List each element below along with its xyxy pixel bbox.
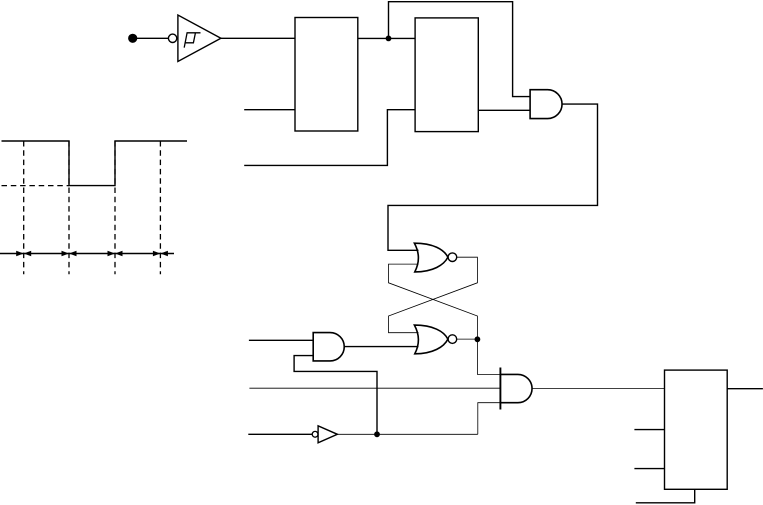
arrowhead left at t1 bbox=[24, 251, 32, 257]
wire U5 input1 stub bbox=[249, 339, 313, 341]
wire U5 output to U4 input bbox=[344, 346, 418, 348]
dashed marker line t4 bbox=[159, 141, 161, 274]
dashed low-level reference line bbox=[2, 185, 70, 187]
block1 bbox=[295, 18, 358, 132]
wire schmitt output to block1 bbox=[221, 37, 295, 39]
gray bus wire to AND U6 middle input bbox=[249, 387, 500, 389]
arrowhead left at t4 bbox=[160, 251, 168, 257]
wire Q down to AND U6 first input (gray) bbox=[477, 339, 500, 374]
dashed marker line t1 bbox=[23, 141, 25, 274]
wire U4 output (gray) bbox=[457, 338, 478, 340]
and gate U2 bbox=[530, 90, 562, 119]
input node dot bbox=[128, 34, 137, 43]
arrowhead right at t4 bbox=[153, 251, 161, 257]
inverter input bubble bbox=[312, 431, 318, 437]
schmitt trigger buffer U1 bbox=[178, 15, 221, 62]
dashed marker line t2 bbox=[68, 141, 70, 274]
wire inverter input bbox=[248, 433, 312, 435]
wire block2 output to AND U2 bbox=[478, 109, 530, 111]
U4 output bubble bbox=[448, 335, 457, 344]
block3 bbox=[665, 370, 728, 489]
wire U2 output down to NOR latch bbox=[388, 104, 598, 250]
and gate U5 bbox=[313, 333, 344, 361]
wire up to AND U6 third input (gray) bbox=[478, 403, 501, 435]
arrowhead right at t1 bbox=[16, 251, 24, 257]
wire block1 to block2 bbox=[358, 37, 415, 39]
wire block3 output bbox=[727, 388, 763, 390]
wire block3 bottom pin bbox=[636, 489, 695, 503]
junction node bbox=[386, 36, 392, 42]
junction node Q bbox=[475, 336, 481, 342]
inverter input bubble bbox=[168, 34, 176, 42]
nor gate U3 (top) bbox=[414, 243, 448, 272]
arrowhead left at t2 bbox=[69, 251, 77, 257]
dimension arrow line bbox=[0, 253, 174, 255]
U6 input bar bbox=[499, 368, 501, 410]
block2 bbox=[415, 18, 478, 132]
block3 input stub 2 bbox=[634, 429, 664, 431]
U3 output bubble bbox=[448, 253, 457, 262]
wire U7 output (gray) bbox=[337, 433, 477, 435]
wire feedback loop over the top to AND U2 bbox=[389, 2, 531, 97]
block3 input stub 3 bbox=[634, 468, 664, 470]
block1 input2 stub bbox=[244, 109, 295, 111]
arrowhead right at t3 bbox=[108, 251, 116, 257]
wire U6 output to block3 (gray) bbox=[532, 387, 664, 389]
arrowhead right at t2 bbox=[62, 251, 70, 257]
wire U4 output cross-coupled to U3 input (gray) bbox=[389, 264, 478, 339]
buffer U7 bbox=[318, 426, 337, 443]
waveform trace bbox=[2, 141, 188, 186]
hysteresis symbol bbox=[184, 33, 200, 48]
nor gate U4 (bottom) bbox=[414, 325, 448, 354]
wire input to inverter bubble bbox=[136, 37, 168, 39]
wire U3 output cross-coupled to U4 input (gray) bbox=[389, 257, 478, 333]
junction node bbox=[374, 431, 380, 437]
and gate U6 body bbox=[500, 374, 532, 402]
dashed marker line t3 bbox=[114, 141, 116, 274]
wire U5 input2 loop down to inverter net bbox=[294, 356, 377, 435]
wire lower input to block2 bbox=[244, 110, 415, 166]
arrowhead left at t3 bbox=[115, 251, 123, 257]
